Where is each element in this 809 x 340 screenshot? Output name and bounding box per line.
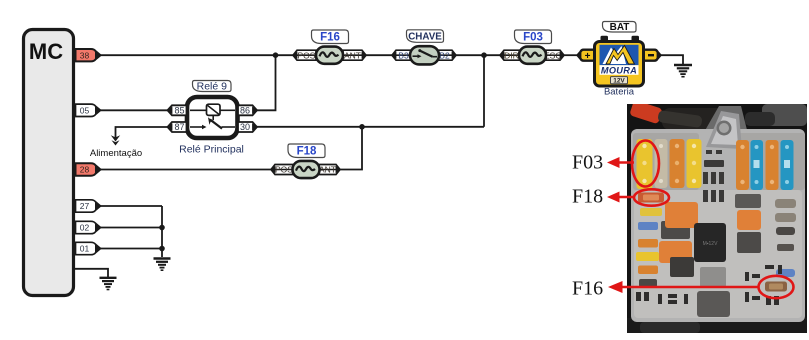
photo: maxi fuse yellow 2 — [687, 139, 702, 188]
node: junction on top rail at x=275.5 — [273, 52, 279, 58]
node: junction on pin 30 rail at x=362 — [359, 124, 365, 130]
svg-text:+: + — [585, 51, 591, 62]
photo: maxi fuse cyan 2 — [781, 140, 794, 190]
wire: MC pin 02 to ground bus — [99, 227, 162, 229]
label tag Rele 9 — [193, 80, 232, 92]
photo: right column small parts — [775, 199, 796, 208]
svg-text:F03: F03 — [572, 152, 603, 174]
svg-text:01: 01 — [80, 244, 90, 254]
relay pin 86 — [238, 105, 257, 115]
svg-text:86: 86 — [240, 106, 250, 116]
ground: bus ground symbol — [154, 259, 171, 271]
svg-text:30: 30 — [240, 122, 250, 132]
battery BAT body (MOURA) — [595, 42, 644, 87]
photo: bottom contact slots — [636, 265, 782, 305]
wire: branch from top rail down to relay pin 30 rail — [483, 55, 485, 127]
annotation: red ellipse around F16 fuse — [759, 276, 794, 298]
svg-text:POS: POS — [275, 165, 293, 175]
photo: maxi fuse F03 (yellow, circled) — [637, 139, 653, 189]
svg-text:28: 28 — [80, 165, 90, 175]
battery BAT negative terminal — [643, 50, 661, 61]
label tag F18 — [288, 144, 325, 158]
label tag BAT — [603, 22, 637, 33]
label tag F03 — [515, 30, 552, 44]
svg-text:87: 87 — [174, 122, 184, 132]
svg-text:27: 27 — [80, 201, 90, 211]
photo: fuse box body — [631, 129, 805, 322]
photo: relays middle — [661, 221, 690, 239]
pin 05 (MC) — [76, 104, 101, 116]
wire: MC pin 05 to relay pin 85 — [99, 109, 169, 111]
fuse F16 tab ANT — [343, 50, 366, 60]
pin 27 (MC) — [76, 200, 101, 212]
fuse F16 body — [316, 47, 343, 64]
fuse F18 tab POS — [271, 165, 293, 175]
ground: MC case ground symbol — [100, 278, 117, 290]
svg-text:F18: F18 — [297, 146, 317, 158]
label: Alimentacao — [90, 148, 142, 159]
label: F16 (photo) — [572, 278, 603, 300]
node: bus junction at pin 01 — [159, 246, 165, 252]
svg-text:M▪12V: M▪12V — [703, 241, 718, 247]
photo: maxi fuse cyan 1 — [751, 140, 764, 190]
wire: relay pin 30 rail to x=484 — [256, 126, 484, 128]
fuse F03 body — [519, 47, 546, 64]
label tag F16 — [312, 30, 349, 44]
node: junction on top rail at x=484 — [481, 52, 487, 58]
annotation: F03 arrow — [607, 157, 634, 168]
photo: maxi fuse orange 3 — [766, 140, 779, 190]
svg-text:POS: POS — [298, 50, 316, 60]
wire: ground bus vertical — [161, 206, 163, 257]
svg-text:Bateria: Bateria — [604, 87, 635, 98]
photo: maxi fuse orange 1 — [670, 139, 685, 188]
label: Rele Principal — [179, 144, 244, 156]
photo: center column slots — [703, 150, 724, 202]
svg-text:F18: F18 — [572, 186, 603, 208]
label: F03 (photo) — [572, 152, 603, 174]
node: bus junction at pin 02 — [159, 225, 165, 231]
svg-text:Alimentação: Alimentação — [90, 148, 142, 159]
tab tips (solid connector points) — [95, 51, 662, 252]
wire: CHAVE B2 to F03 DIR — [456, 54, 501, 56]
switch CHAVE tab B3 — [392, 50, 412, 60]
svg-text:02: 02 — [80, 223, 90, 233]
annotation: red ellipse around F03 fuse — [632, 141, 659, 187]
svg-text:ANT: ANT — [344, 50, 361, 60]
switch CHAVE body — [410, 46, 439, 64]
switch CHAVE tab B2 — [437, 50, 456, 60]
photo: maxi fuse beige — [655, 139, 668, 188]
photo: F16 small fuse (circled) — [765, 282, 787, 292]
svg-text:85: 85 — [174, 106, 184, 116]
wire: branch from top rail down to relay pin 86 — [256, 55, 276, 110]
wire: relay pin 87 to Alimentacao arrow — [116, 127, 170, 138]
fuse F03 tab DIR — [500, 50, 520, 60]
svg-text:38: 38 — [80, 50, 90, 60]
wire: MC pin 38 to F16 POS (top rail) — [99, 54, 295, 56]
wire: F03 ESQ to battery + terminal — [564, 54, 580, 56]
svg-text:F03: F03 — [523, 32, 543, 44]
pin 02 (MC) — [76, 221, 101, 233]
fuse F16 tab POS — [293, 50, 316, 60]
svg-text:ANT: ANT — [319, 165, 336, 175]
pin 01 (MC) — [76, 242, 101, 254]
wire: MC pin 28 to F18 POS — [99, 169, 272, 171]
photo: fuse box panel — [627, 100, 807, 333]
pin 38 (MC) — [76, 49, 101, 61]
ECU module MC — [24, 30, 74, 296]
wire: MC pin 27 to ground bus — [99, 205, 162, 207]
photo: small yellow fuse under F18 — [640, 208, 662, 216]
svg-text:BAT: BAT — [610, 22, 630, 33]
svg-text:B2: B2 — [439, 50, 450, 60]
svg-text:B3: B3 — [398, 50, 409, 60]
relay U: Rele 9 box — [187, 97, 238, 138]
battery BAT positive terminal — [578, 50, 596, 62]
photo: left column small fuses — [638, 222, 658, 230]
arrowhead: Alimentacao feed arrow (down) — [111, 135, 120, 145]
label tag CHAVE — [407, 30, 444, 43]
ground: battery ground symbol — [674, 65, 692, 77]
relay pin 85 — [168, 105, 187, 115]
annotation: red ellipse around F18 fuse — [634, 189, 669, 205]
pin 28 (MC) — [76, 163, 101, 175]
svg-text:DIR: DIR — [504, 50, 519, 60]
photo: F18 small fuse (circled) — [638, 193, 664, 203]
svg-text:12V: 12V — [613, 78, 625, 85]
svg-text:F16: F16 — [572, 278, 603, 300]
fuse F18 tab ANT — [319, 165, 340, 175]
relay pin 30 — [238, 122, 257, 132]
svg-text:CHAVE: CHAVE — [408, 31, 442, 42]
label: F18 (photo) — [572, 186, 603, 208]
annotation: F16 arrow — [608, 281, 759, 293]
wire: MC pin 01 to ground bus — [99, 248, 162, 250]
label: Bateria — [604, 87, 635, 98]
photo: maxi fuse orange 2 — [736, 140, 749, 190]
svg-text:05: 05 — [80, 105, 90, 115]
wire: MC case to chassis ground — [74, 269, 108, 277]
fuse F03 tab ESQ — [544, 50, 564, 60]
svg-text:Relé Principal: Relé Principal — [179, 144, 244, 156]
svg-text:F16: F16 — [320, 32, 340, 44]
svg-text:Relé 9: Relé 9 — [197, 80, 228, 92]
svg-text:MOURA: MOURA — [601, 65, 637, 75]
fuse F18 body — [293, 161, 320, 178]
wire: battery negative to ground — [660, 55, 683, 64]
svg-text:MC: MC — [29, 39, 63, 64]
battery BAT terminal posts — [601, 36, 640, 43]
relay pin 87 — [168, 122, 187, 132]
wire: F16 ANT to CHAVE B3 — [364, 54, 393, 56]
annotation: F18 arrow — [607, 192, 634, 203]
photo: bracket with bolt — [706, 111, 742, 149]
wire: F18 ANT up to pin 30 rail junction — [340, 127, 362, 170]
